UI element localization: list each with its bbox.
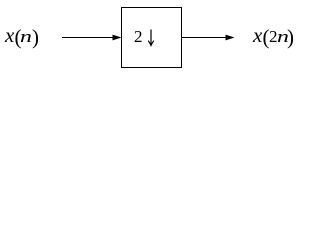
node x(n) input signal label [0,0,303,1]
value label 2 decimation factor inside block [134,28,143,45]
input arrowhead at block [113,35,122,41]
downsampler symbol down-arrow stem [150,30,152,46]
downsampler symbol down-arrowhead barbs [148,41,154,46]
downsampler block box [122,8,182,68]
downsampler diagram: wires, arrowheads and block [0,0,303,77]
wire input arrow shaft [62,37,115,39]
node x(2n) output signal label [0,0,303,1]
wire output arrow shaft [182,37,228,39]
output arrowhead [226,35,235,41]
